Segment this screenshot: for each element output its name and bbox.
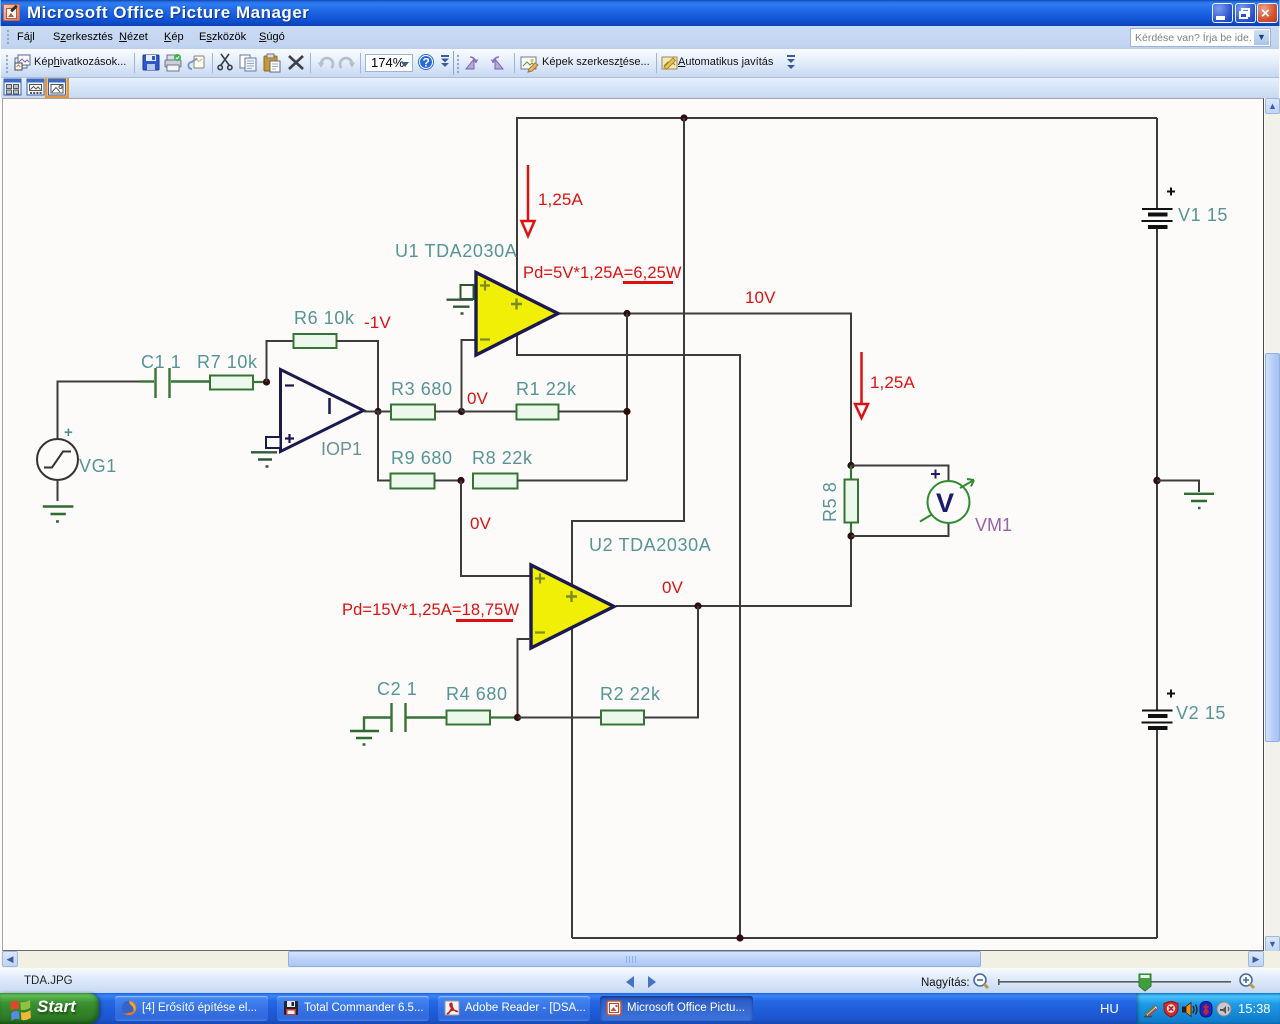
window title bar xyxy=(0,0,1280,26)
annotation Pd U1 xyxy=(523,264,682,284)
node top rail junction xyxy=(680,114,687,121)
label VG1 plus xyxy=(64,424,73,441)
op-amp IOP1 xyxy=(266,370,364,452)
label VM1 xyxy=(975,515,1012,535)
wire U2 V- supply drop xyxy=(571,627,573,938)
label C1 1 xyxy=(141,352,181,372)
label -1V xyxy=(364,313,391,332)
label 0V node2 xyxy=(470,514,492,533)
node IOP1 inverting input xyxy=(263,378,270,385)
svg-text:U2 TDA2030A: U2 TDA2030A xyxy=(589,535,711,555)
node IOP1 output xyxy=(374,408,381,415)
wire voltmeter bottom to R5 xyxy=(851,523,949,536)
svg-text:V2 15: V2 15 xyxy=(1176,703,1226,723)
ground right supply xyxy=(1184,494,1214,508)
label U1 TDA2030A xyxy=(395,241,517,261)
node U1 inverting node xyxy=(458,408,465,415)
svg-text:VM1: VM1 xyxy=(975,515,1012,535)
node U1 output junction xyxy=(623,310,630,317)
svg-text:IOP1: IOP1 xyxy=(321,439,362,459)
status bar xyxy=(0,968,1280,993)
wire IOP1 output xyxy=(364,411,391,413)
wire R6 to IOP1 output xyxy=(337,341,379,412)
wire U2 output to R5 bottom xyxy=(616,536,851,606)
resistor R1 xyxy=(462,405,628,420)
wire bottom rail xyxy=(572,937,1157,939)
node U2 non-inverting node xyxy=(457,477,464,484)
svg-text:R8 22k: R8 22k xyxy=(472,448,533,468)
toolbar xyxy=(1,49,1279,78)
resistor R6 xyxy=(294,334,337,348)
label R4 680 xyxy=(446,684,508,704)
ground C2 xyxy=(350,731,379,745)
svg-text:R3 680: R3 680 xyxy=(391,379,453,399)
svg-text:R9 680: R9 680 xyxy=(391,448,453,468)
system tray xyxy=(1136,993,1280,1024)
svg-text:-1V: -1V xyxy=(364,313,391,332)
voltmeter VM1 xyxy=(920,470,974,524)
svg-text:R4 680: R4 680 xyxy=(446,684,508,704)
label R2 22k xyxy=(600,684,661,704)
svg-text:R2 22k: R2 22k xyxy=(600,684,661,704)
annotation Pd U2 xyxy=(342,601,519,622)
wire U1 V+ supply drop xyxy=(516,117,518,293)
svg-text:V: V xyxy=(936,488,954,518)
label V1 15 xyxy=(1178,205,1228,225)
menu bar xyxy=(1,26,1279,49)
svg-text:1,25A: 1,25A xyxy=(538,190,583,209)
resistor R4 xyxy=(447,711,518,725)
label R3 680 xyxy=(391,379,453,399)
vertical scrollbar xyxy=(1265,98,1280,953)
svg-text:V1 15: V1 15 xyxy=(1178,205,1228,225)
op-amp U1 TDA2030A xyxy=(461,273,559,356)
wire R5 to voltmeter top xyxy=(851,466,949,482)
label R5 8 xyxy=(820,482,840,522)
wire U1 V- supply to bottom rail xyxy=(517,334,740,938)
svg-text:0V: 0V xyxy=(467,389,489,408)
node R5 top xyxy=(847,462,854,469)
svg-text:Pd=5V*1,25A=6,25W: Pd=5V*1,25A=6,25W xyxy=(523,264,682,282)
annotation red arrow U1 current xyxy=(522,165,535,236)
task buttons xyxy=(115,996,268,1021)
annotation red arrow R5 current xyxy=(855,352,868,418)
wire VG1 to ground xyxy=(57,480,59,501)
wire right supply branch xyxy=(1156,118,1158,938)
label R1 22k xyxy=(516,379,577,399)
start button xyxy=(0,993,99,1024)
node R5 bottom xyxy=(847,532,854,539)
label 10V xyxy=(745,288,776,307)
wire U1 output to R5 top xyxy=(559,314,851,465)
label 0V node1 xyxy=(467,389,489,408)
ground U1 non-inverting input xyxy=(447,300,474,314)
label 1,25A lower xyxy=(870,373,915,392)
wire U2 non-inverting input riser xyxy=(461,481,531,577)
svg-text:10V: 10V xyxy=(745,288,776,307)
label V2 15 xyxy=(1176,703,1226,723)
resistor R5 xyxy=(845,466,859,537)
resistor R9 xyxy=(391,474,462,489)
svg-text:C1 1: C1 1 xyxy=(141,352,181,372)
svg-text:C2 1: C2 1 xyxy=(377,679,417,699)
wire VG1 to C1 xyxy=(58,382,141,440)
label C2 1 xyxy=(377,679,417,699)
wire U2 inverting input xyxy=(518,639,532,718)
svg-text:0V: 0V xyxy=(662,578,684,597)
svg-text:R1 22k: R1 22k xyxy=(516,379,577,399)
svg-text:0V: 0V xyxy=(470,514,492,533)
taskbar xyxy=(0,993,1280,1024)
node supply mid junction xyxy=(1153,477,1160,484)
wire U1 inverting input riser xyxy=(462,340,477,412)
svg-text:1,25A: 1,25A xyxy=(870,373,915,392)
node U2 inverting node xyxy=(514,714,521,721)
resistor R2 xyxy=(518,711,645,725)
horizontal scrollbar row xyxy=(1,951,1280,968)
wire top positive rail xyxy=(517,117,1157,119)
view row xyxy=(1,78,1279,98)
wire stub to right ground xyxy=(1157,481,1199,493)
label R9 680 xyxy=(391,448,453,468)
wire R1 feedback riser xyxy=(626,314,628,412)
label 0V U2 output xyxy=(662,578,684,597)
resistor R8 xyxy=(473,474,627,489)
svg-text:VG1: VG1 xyxy=(79,456,117,476)
svg-text:R5 8: R5 8 xyxy=(820,482,840,522)
op-amp U2 TDA2030A xyxy=(531,565,614,648)
label 1,25A upper xyxy=(538,190,583,209)
capacitor C2 xyxy=(364,703,447,732)
svg-text:U1 TDA2030A: U1 TDA2030A xyxy=(395,241,517,261)
voltage source VG1 xyxy=(37,439,78,480)
node bottom rail junction xyxy=(736,934,743,941)
label VG1 xyxy=(79,456,117,476)
svg-text:R6 10k: R6 10k xyxy=(294,308,355,328)
battery V1 xyxy=(1142,188,1176,228)
wire R2 riser xyxy=(644,606,698,718)
svg-text:Pd=15V*1,25A=18,75W: Pd=15V*1,25A=18,75W xyxy=(342,601,519,619)
wire R8 riser xyxy=(626,412,628,481)
svg-text:R7 10k: R7 10k xyxy=(197,352,258,372)
language indicator xyxy=(1100,1001,1119,1016)
node U2 output junction xyxy=(694,602,701,609)
label IOP1 xyxy=(321,439,362,459)
resistor R7 xyxy=(210,376,267,390)
resistor R3 xyxy=(391,405,462,420)
label R7 10k xyxy=(197,352,258,372)
svg-text:+: + xyxy=(64,424,73,441)
capacitor C1 xyxy=(140,368,210,398)
wire R6 feedback loop xyxy=(267,341,294,382)
label U2 TDA2030A xyxy=(589,535,711,555)
wire IOP1 output down to R9 xyxy=(378,412,391,481)
label R8 22k xyxy=(472,448,533,468)
battery V2 xyxy=(1142,690,1176,729)
ground VG1 xyxy=(43,507,74,522)
wire U2 V+ supply from top rail xyxy=(572,118,684,586)
node R1 right junction xyxy=(623,408,630,415)
ground IOP1 non-inverting input xyxy=(251,452,277,466)
label R6 10k xyxy=(294,308,355,328)
